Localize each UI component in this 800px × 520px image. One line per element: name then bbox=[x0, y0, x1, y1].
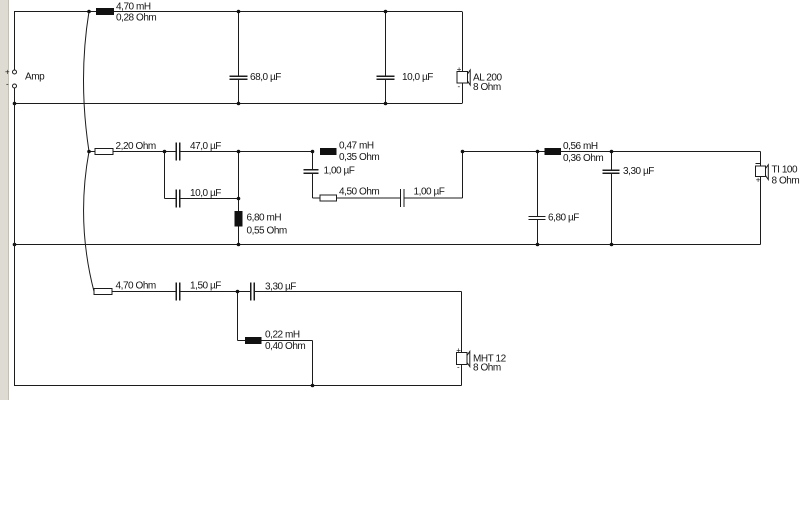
svg-text:0,55 Ohm: 0,55 Ohm bbox=[247, 226, 287, 237]
svg-text:1,00 µF: 1,00 µF bbox=[324, 166, 355, 177]
svg-text:0,22 mH: 0,22 mH bbox=[265, 330, 300, 341]
svg-text:0,35 Ohm: 0,35 Ohm bbox=[339, 152, 379, 163]
svg-text:8 Ohm: 8 Ohm bbox=[473, 363, 501, 374]
svg-text:0,47 mH: 0,47 mH bbox=[339, 141, 374, 152]
svg-text:68,0 µF: 68,0 µF bbox=[250, 72, 281, 83]
svg-text:0,28 Ohm: 0,28 Ohm bbox=[116, 13, 156, 24]
svg-text:0,56 mH: 0,56 mH bbox=[563, 141, 598, 152]
svg-text:8 Ohm: 8 Ohm bbox=[473, 82, 501, 93]
svg-text:TI 100: TI 100 bbox=[772, 165, 799, 176]
svg-text:-: - bbox=[458, 82, 461, 91]
svg-text:1,00 µF: 1,00 µF bbox=[414, 187, 445, 198]
svg-text:3,30 µF: 3,30 µF bbox=[623, 166, 654, 177]
svg-text:8 Ohm: 8 Ohm bbox=[772, 176, 800, 187]
svg-text:6,80 mH: 6,80 mH bbox=[247, 213, 282, 224]
svg-text:2,20 Ohm: 2,20 Ohm bbox=[116, 141, 156, 152]
svg-text:10,0 µF: 10,0 µF bbox=[190, 188, 221, 199]
svg-text:3,30 µF: 3,30 µF bbox=[265, 282, 296, 293]
svg-text:-: - bbox=[6, 80, 9, 89]
svg-text:0,36 Ohm: 0,36 Ohm bbox=[563, 153, 603, 164]
svg-text:+: + bbox=[457, 65, 462, 74]
svg-text:-: - bbox=[457, 362, 460, 371]
svg-text:47,0 µF: 47,0 µF bbox=[190, 141, 221, 152]
svg-text:4,50 Ohm: 4,50 Ohm bbox=[339, 187, 379, 198]
svg-text:0,40 Ohm: 0,40 Ohm bbox=[265, 341, 305, 352]
svg-text:4,70 mH: 4,70 mH bbox=[116, 2, 151, 13]
svg-text:4,70 Ohm: 4,70 Ohm bbox=[116, 281, 156, 292]
svg-text:1,50 µF: 1,50 µF bbox=[190, 281, 221, 292]
svg-text:+: + bbox=[5, 68, 10, 77]
svg-text:6,80 µF: 6,80 µF bbox=[548, 213, 579, 224]
svg-text:10,0 µF: 10,0 µF bbox=[402, 72, 433, 83]
svg-text:Amp: Amp bbox=[25, 72, 45, 83]
svg-text:+: + bbox=[456, 346, 461, 355]
